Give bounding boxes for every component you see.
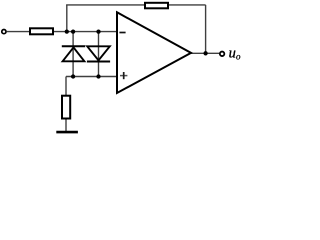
diode D2 (pointing down) triangle: [87, 46, 110, 60]
resistor R2 (to ground): [62, 96, 70, 119]
resistor Rf (feedback): [145, 3, 168, 9]
wire op-amp output to terminal: [191, 52, 219, 54]
wire feedback drop to output node: [205, 5, 207, 53]
wire R2 to ground: [65, 119, 67, 132]
wire bottom rail down to R2: [65, 77, 67, 96]
wire bottom rail to non-inverting input: [66, 76, 117, 78]
diode D2 cathode bar: [87, 61, 110, 63]
wire through diode D2: [98, 32, 100, 77]
wire feedback top left segment: [66, 4, 145, 6]
junction dot D2 bottom: [96, 74, 100, 78]
wire input to R1: [7, 31, 30, 33]
junction dot D1 bottom: [71, 74, 75, 78]
ground: [56, 131, 78, 134]
wire feedback top right segment: [168, 4, 206, 6]
wire feedback riser at node A: [66, 5, 68, 32]
wire through diode D1: [72, 32, 74, 77]
op-amp U1 triangle: [117, 12, 191, 93]
svg-text:u: u: [229, 45, 236, 61]
op-amp inverting input minus sign: [119, 32, 125, 34]
junction dot D1 top: [71, 29, 75, 33]
wire R1 to op-amp inverting input: [53, 31, 117, 33]
op-amp plus sign vertical stroke: [123, 72, 125, 79]
junction dot output node: [203, 51, 207, 55]
node A junction dot (feedback tap): [65, 29, 69, 33]
input terminal: [2, 30, 6, 34]
diode D1 (pointing up) cathode bar: [62, 45, 85, 47]
junction dot D2 top: [96, 29, 100, 33]
diode D1 triangle: [63, 47, 85, 61]
resistor R1 (series input): [30, 28, 53, 34]
output terminal: [220, 52, 225, 57]
op-amp non-inverting input plus sign: [120, 75, 127, 77]
svg-text:o: o: [236, 52, 241, 62]
